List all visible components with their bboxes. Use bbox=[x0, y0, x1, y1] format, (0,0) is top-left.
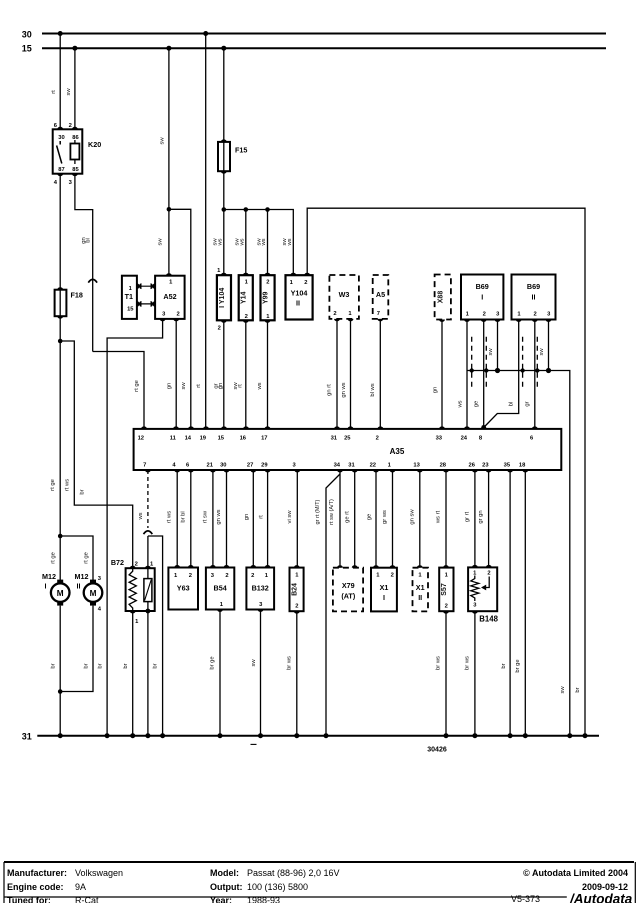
wire B132 pin 3 to ground (sw) bbox=[251, 610, 260, 736]
svg-text:gr: gr bbox=[525, 401, 531, 406]
svg-text:II: II bbox=[296, 299, 300, 308]
svg-text:gr ws: gr ws bbox=[382, 510, 388, 524]
svg-text:M12: M12 bbox=[42, 572, 56, 581]
connector link T1 to A52 (upper) bbox=[137, 283, 155, 289]
wire K20 pin 4 to fuse F18 (rt ge) bbox=[59, 174, 61, 290]
footer data table bbox=[4, 862, 635, 903]
svg-text:11: 11 bbox=[170, 436, 177, 442]
svg-text:16: 16 bbox=[240, 436, 247, 442]
svg-text:100 (136) 5800: 100 (136) 5800 bbox=[247, 882, 308, 892]
wire A35 pin 23 to B148 pin 2 (gr gn) bbox=[478, 470, 489, 568]
svg-text:23: 23 bbox=[482, 463, 489, 469]
junction rail / Y14 bbox=[244, 207, 249, 212]
wire junction to B72 pin 2 (rt ws) bbox=[60, 341, 133, 568]
power bus 30 (terminal 30) bbox=[22, 30, 606, 40]
svg-text:34: 34 bbox=[334, 463, 341, 469]
connector X88 bbox=[435, 275, 451, 323]
svg-text:X79: X79 bbox=[342, 581, 355, 590]
wire A35 pin 35 to ground (br) bbox=[501, 470, 510, 736]
svg-text:bl: bl bbox=[86, 238, 92, 243]
wire A35 pin 21 to B54 pin 3 (rt sw) bbox=[203, 470, 213, 568]
junction bus30 / K20 pin 6 wire bbox=[58, 31, 63, 36]
wire B69 II pin 1 to A35 pin 8 (bl) bbox=[484, 320, 519, 428]
svg-text:rt ge: rt ge bbox=[50, 479, 56, 491]
svg-text:2: 2 bbox=[295, 604, 298, 610]
junction M12 feed split bbox=[58, 534, 63, 539]
wire B72 internal node to ground bbox=[147, 611, 149, 736]
wire Y104 II pin 2 to ground bus (br) bbox=[307, 208, 585, 736]
wire M12 I to ground (br) bbox=[51, 606, 61, 736]
svg-text:ws: ws bbox=[138, 512, 144, 520]
svg-text:gr rt: gr rt bbox=[464, 511, 470, 522]
svg-text:30: 30 bbox=[22, 30, 32, 40]
wire A35 pin 4 to Y63 pin 1 (rt ws) bbox=[167, 470, 178, 568]
motor M12 II bbox=[75, 572, 103, 613]
wire branch to A35 pin 14 (sw) bbox=[169, 209, 191, 429]
svg-text:gn sw: gn sw bbox=[409, 509, 415, 525]
svg-text:1: 1 bbox=[174, 573, 178, 579]
svg-text:1: 1 bbox=[445, 573, 449, 579]
svg-text:26: 26 bbox=[468, 463, 475, 469]
svg-text:8: 8 bbox=[479, 436, 483, 442]
svg-text:© Autodata Limited 2004: © Autodata Limited 2004 bbox=[523, 868, 628, 878]
wire B72 pin 1 node to ground (br) bbox=[148, 536, 163, 736]
svg-text:F15: F15 bbox=[235, 146, 247, 155]
svg-text:gn rt: gn rt bbox=[327, 384, 333, 396]
svg-text:gn: gn bbox=[432, 387, 438, 393]
svg-text:Engine code:: Engine code: bbox=[7, 882, 64, 892]
svg-text:gn ws: gn ws bbox=[341, 382, 347, 397]
svg-text:bl ws: bl ws bbox=[370, 383, 376, 396]
wire bus15 to fuse F15 (sw) bbox=[223, 48, 225, 142]
svg-text:1: 1 bbox=[266, 314, 270, 320]
svg-text:B24: B24 bbox=[291, 583, 298, 596]
wire S57 pin 2 to ground (br ws) bbox=[436, 611, 446, 736]
wire A52 pin 3 to ground (br) bbox=[80, 319, 163, 736]
wire A35 pin 1 to X1 I pin 2 (gr ws) bbox=[382, 470, 393, 568]
svg-text:1: 1 bbox=[135, 619, 139, 625]
svg-text:Tuned for:: Tuned for: bbox=[7, 896, 51, 903]
svg-text:A35: A35 bbox=[390, 447, 405, 456]
svg-text:br ge: br ge bbox=[210, 656, 216, 669]
wire M12 II pin 4 to M12 I ground (br) bbox=[60, 606, 93, 692]
wire B24 pin 2 to ground (br ws) bbox=[286, 611, 296, 736]
svg-text:II: II bbox=[418, 593, 422, 602]
potentiometer B148 bbox=[468, 565, 499, 623]
junction at A35 pin 8 bbox=[481, 425, 486, 430]
svg-text:1: 1 bbox=[245, 280, 249, 286]
junction M12 ground bbox=[58, 689, 63, 694]
svg-text:B132: B132 bbox=[252, 584, 269, 593]
shield junction diamonds bbox=[469, 368, 540, 374]
wire W3 pin 2 to A35 pin 31 (gn rt) bbox=[327, 319, 337, 429]
svg-text:1: 1 bbox=[290, 280, 294, 286]
svg-text:3: 3 bbox=[473, 603, 477, 609]
sensor W3 bbox=[329, 275, 359, 321]
svg-text:Y63: Y63 bbox=[177, 584, 190, 593]
ground bus 31 bbox=[22, 732, 599, 742]
svg-text:gr gn: gr gn bbox=[478, 510, 484, 523]
footer manufacturer row bbox=[7, 868, 628, 878]
svg-text:br: br bbox=[153, 663, 159, 668]
wire A5 pin 7 to A35 pin 2 (bl ws) bbox=[370, 319, 380, 429]
svg-text:gn ws: gn ws bbox=[216, 509, 222, 524]
junction bus15 / A52 wire bbox=[166, 46, 171, 51]
wire A35 pin 30 to B54 pin 2 (gn ws) bbox=[216, 470, 226, 568]
svg-text:7: 7 bbox=[377, 311, 380, 317]
junction bus30 / A35 pin 19 wire bbox=[203, 31, 208, 36]
svg-text:rt ge: rt ge bbox=[50, 552, 56, 564]
svg-text:15: 15 bbox=[127, 307, 134, 313]
svg-text:rt ge: rt ge bbox=[134, 380, 140, 392]
wire bus15 to K20 pin 2 (sw) bbox=[66, 48, 75, 129]
svg-text:rt ws: rt ws bbox=[167, 511, 173, 523]
svg-text:br ws: br ws bbox=[464, 656, 470, 670]
svg-text:35: 35 bbox=[504, 463, 511, 469]
wire K20 pin 3 to A35 pin 12 (gn bl / rt ge) with tap arrow bbox=[75, 174, 144, 429]
svg-text:1: 1 bbox=[466, 311, 470, 317]
svg-text:br: br bbox=[501, 663, 507, 668]
svg-text:B72: B72 bbox=[111, 558, 124, 567]
svg-text:2: 2 bbox=[189, 573, 192, 579]
svg-text:ws: ws bbox=[457, 400, 463, 408]
wire junction to M12 I (rt ge) bbox=[50, 536, 60, 581]
wire Y104 I pin 2 to A35 pin 15 (gr gn) bbox=[213, 320, 224, 429]
svg-text:1: 1 bbox=[517, 311, 521, 317]
svg-text:2: 2 bbox=[533, 311, 536, 317]
fuse F15 bbox=[218, 139, 247, 173]
wire A35 pin 6 to Y63 pin 2 (br bl) bbox=[181, 470, 191, 568]
svg-text:3: 3 bbox=[162, 311, 166, 317]
svg-text:1: 1 bbox=[348, 311, 352, 317]
svg-text:gn: gn bbox=[167, 383, 173, 389]
junction B69 II pin 3 / shield bus bbox=[546, 368, 551, 373]
shield drain bus to ground (sw) bbox=[467, 371, 570, 736]
svg-text:2: 2 bbox=[304, 280, 307, 286]
connector X79 (AT) bbox=[333, 565, 363, 611]
wire A35 pin 28 to S57 pin 1 (ws rt) bbox=[436, 470, 447, 568]
wire B54 pin 1 to ground (br ge) bbox=[210, 610, 220, 736]
svg-text:Output:: Output: bbox=[210, 882, 242, 892]
svg-text:4: 4 bbox=[172, 463, 176, 469]
svg-text:ws: ws bbox=[287, 238, 293, 246]
sensor B132 bbox=[246, 565, 274, 612]
svg-text:1: 1 bbox=[217, 268, 221, 274]
junction ground bus / B132 bbox=[258, 733, 263, 738]
svg-text:2: 2 bbox=[225, 573, 228, 579]
svg-text:6: 6 bbox=[186, 463, 190, 469]
wire A35 pin 18 to ground (br ge) bbox=[515, 470, 525, 736]
svg-text:2009-09-12: 2009-09-12 bbox=[582, 882, 628, 892]
svg-text:B69: B69 bbox=[476, 282, 489, 291]
svg-text:2: 2 bbox=[135, 562, 138, 568]
svg-text:ws: ws bbox=[257, 382, 263, 390]
svg-text:2: 2 bbox=[251, 573, 254, 579]
svg-text:Model:: Model: bbox=[210, 868, 239, 878]
svg-text:2: 2 bbox=[487, 571, 490, 577]
sensor B54 bbox=[206, 565, 234, 612]
svg-text:14: 14 bbox=[185, 436, 192, 442]
wire B72 pin 1 (bottom) to ground (br) bbox=[123, 611, 133, 736]
svg-text:22: 22 bbox=[370, 463, 376, 469]
svg-text:85: 85 bbox=[72, 167, 79, 173]
svg-text:rt: rt bbox=[258, 515, 264, 519]
wire A35 pin 29 to B132 pin 1 (rt) bbox=[258, 470, 267, 568]
svg-text:1: 1 bbox=[376, 573, 380, 579]
svg-text:/Autodata: /Autodata bbox=[569, 892, 633, 903]
svg-text:sw: sw bbox=[560, 686, 566, 694]
junction ground bus / shield drain bbox=[567, 733, 572, 738]
wire A35 pin 13 to X1 II pin 1 (gn sw) bbox=[409, 470, 420, 568]
connector arrow at B72 pin 1 bbox=[144, 531, 153, 534]
switch S57 bbox=[439, 565, 453, 614]
wire bus15 to A52 pin 1 (sw) bbox=[158, 48, 169, 276]
svg-text:3: 3 bbox=[292, 463, 296, 469]
svg-text:3: 3 bbox=[69, 180, 73, 186]
junction ground bus / A35 pin35 bbox=[508, 733, 513, 738]
wire A35 pin 3 to B24 pin 1 (vi sw) bbox=[287, 470, 298, 568]
valve Y99 bbox=[261, 273, 275, 323]
svg-text:W3: W3 bbox=[339, 290, 350, 299]
footer tuned row (cut off) bbox=[7, 894, 540, 903]
valve Y104 II bbox=[286, 273, 313, 320]
svg-text:ge rt: ge rt bbox=[344, 511, 350, 523]
wire F15 output rail bbox=[224, 171, 293, 275]
svg-text:1: 1 bbox=[169, 280, 173, 286]
svg-text:27: 27 bbox=[247, 463, 253, 469]
svg-text:br: br bbox=[97, 663, 103, 668]
wire B69 I pin 2 to A35 pin 8 (ge) bbox=[474, 320, 484, 429]
wire B69 I pin 1 to A35 pin 24 (ws) bbox=[457, 320, 467, 429]
svg-text:ws: ws bbox=[217, 238, 223, 246]
sensor B69 I bbox=[461, 275, 503, 323]
wire A35 pin 7 to B72 pin 1 (ws, dashed) with arrow bbox=[138, 470, 148, 568]
svg-text:rt ws: rt ws bbox=[64, 479, 70, 491]
wire X88 to A35 pin 33 (gn) bbox=[432, 320, 442, 429]
junction ground bus / S57 bbox=[444, 733, 449, 738]
svg-text:rt sw: rt sw bbox=[203, 510, 209, 523]
svg-text:19: 19 bbox=[200, 436, 207, 442]
svg-text:15: 15 bbox=[22, 44, 32, 54]
ground node 30426 bbox=[251, 744, 447, 753]
svg-text:6: 6 bbox=[530, 436, 534, 442]
svg-text:Manufacturer:: Manufacturer: bbox=[7, 868, 67, 878]
svg-text:gr rt (M/T): gr rt (M/T) bbox=[315, 499, 321, 524]
wire Y99 pin 1 to A35 pin 17 (ws) bbox=[257, 320, 267, 429]
svg-text:R-Cat: R-Cat bbox=[75, 896, 99, 903]
module A5 bbox=[373, 275, 389, 321]
wire B69 II pin 3 to shield bus (sw) bbox=[539, 320, 549, 371]
svg-text:15: 15 bbox=[218, 436, 225, 442]
svg-text:X1: X1 bbox=[380, 583, 389, 592]
sensor B24 bbox=[290, 565, 304, 614]
svg-text:T1: T1 bbox=[125, 292, 133, 301]
svg-text:87: 87 bbox=[58, 167, 64, 173]
svg-text:6: 6 bbox=[54, 123, 58, 129]
svg-text:2: 2 bbox=[483, 311, 486, 317]
wire rail to Y104 I pin 1 (sw ws) bbox=[213, 210, 224, 276]
junction ground bus / M12 bbox=[58, 733, 63, 738]
svg-text:rt sw (A/T): rt sw (A/T) bbox=[329, 499, 335, 525]
Autodata logo bbox=[569, 892, 633, 903]
svg-text:Y14: Y14 bbox=[241, 291, 248, 304]
svg-text:1988-93: 1988-93 bbox=[247, 896, 280, 903]
wire B148 pin 3 to ground (br ws) bbox=[464, 611, 475, 736]
svg-text:ge: ge bbox=[367, 514, 373, 520]
wire F18 to junction (rt ge) bbox=[50, 316, 60, 536]
fuse F18 bbox=[55, 287, 83, 319]
svg-text:rt: rt bbox=[196, 384, 202, 388]
svg-text:sw: sw bbox=[159, 137, 165, 145]
svg-text:ge: ge bbox=[474, 401, 480, 407]
wire A35 pin 27 to B132 pin 2 (gn) bbox=[244, 470, 253, 568]
svg-text:gn: gn bbox=[244, 514, 250, 520]
svg-text:33: 33 bbox=[436, 436, 443, 442]
screen (shield) dashed lines B69 I bbox=[472, 337, 487, 389]
ignition coil T1 bbox=[122, 276, 137, 319]
svg-text:br ws: br ws bbox=[436, 656, 442, 670]
svg-text:II: II bbox=[532, 293, 536, 302]
svg-text:3: 3 bbox=[98, 576, 102, 582]
wire A35 pin 34 to ground (gr rt (M/T)) bbox=[315, 474, 340, 736]
svg-text:S57: S57 bbox=[441, 583, 448, 596]
svg-text:13: 13 bbox=[413, 463, 420, 469]
wire rail to Y14 pin 1 (sw ws) bbox=[235, 210, 246, 276]
svg-text:br: br bbox=[51, 663, 57, 668]
svg-text:B54: B54 bbox=[214, 584, 227, 593]
wire junction to M12 II pin 3 (rt ge) bbox=[60, 536, 93, 581]
junction ground bus / B54 bbox=[218, 733, 223, 738]
svg-text:II: II bbox=[77, 582, 81, 591]
svg-text:A52: A52 bbox=[163, 292, 176, 301]
svg-text:2: 2 bbox=[445, 604, 448, 610]
wire rail to Y99 pin 2 (sw ws) bbox=[256, 210, 267, 276]
svg-text:br: br bbox=[123, 663, 129, 668]
svg-text:1: 1 bbox=[265, 573, 269, 579]
svg-text:B148: B148 bbox=[479, 614, 498, 623]
svg-text:30426: 30426 bbox=[427, 747, 447, 754]
svg-text:2: 2 bbox=[391, 573, 394, 579]
valve Y14 bbox=[239, 273, 253, 323]
connector arrow on gn bl wire bbox=[88, 279, 97, 282]
svg-text:I: I bbox=[45, 582, 47, 591]
svg-text:2: 2 bbox=[266, 280, 269, 286]
svg-text:86: 86 bbox=[72, 135, 79, 141]
junction A52 feed / A35 pin 14 branch bbox=[167, 207, 172, 212]
svg-text:rt ge: rt ge bbox=[83, 552, 89, 564]
svg-text:1: 1 bbox=[150, 562, 154, 568]
wire bus30 to K20 pin 6 (rt) bbox=[51, 34, 60, 130]
svg-text:M12: M12 bbox=[75, 572, 89, 581]
svg-text:br ge: br ge bbox=[515, 659, 521, 672]
svg-text:30: 30 bbox=[220, 463, 226, 469]
svg-text:1: 1 bbox=[418, 573, 422, 579]
svg-text:bl: bl bbox=[509, 402, 515, 407]
motor M12 I bbox=[42, 572, 69, 606]
junction rail / Y99 bbox=[265, 207, 270, 212]
svg-text:br: br bbox=[80, 489, 86, 494]
valve Y63 bbox=[168, 565, 198, 610]
junction ground bus / A52 ground bbox=[105, 733, 110, 738]
junction B69 I pin 3 / shield bus bbox=[495, 368, 500, 373]
svg-text:X1: X1 bbox=[416, 583, 425, 592]
svg-text:(AT): (AT) bbox=[341, 592, 355, 601]
wire bus30 to A35 pin 19 (rt) bbox=[196, 34, 206, 429]
svg-text:rt: rt bbox=[51, 90, 57, 94]
wire B69 II pin 2 to A35 pin 6 (gr) bbox=[525, 320, 535, 429]
svg-text:V5-373: V5-373 bbox=[511, 894, 540, 903]
junction ground bus / B24 bbox=[294, 733, 299, 738]
svg-text:1: 1 bbox=[220, 602, 224, 608]
relay K20 bbox=[53, 123, 101, 186]
svg-text:28: 28 bbox=[440, 463, 447, 469]
svg-text:9A: 9A bbox=[75, 882, 86, 892]
svg-text:17: 17 bbox=[261, 436, 267, 442]
svg-text:18: 18 bbox=[519, 463, 526, 469]
svg-text:21: 21 bbox=[206, 463, 213, 469]
valve Y104 I bbox=[217, 268, 231, 332]
svg-text:br ws: br ws bbox=[286, 656, 292, 670]
svg-text:A5: A5 bbox=[376, 290, 385, 299]
wire A35 pin 22 to X1 I pin 1 (ge) bbox=[367, 470, 376, 568]
svg-text:Y99: Y99 bbox=[262, 291, 269, 304]
svg-text:br bl: br bl bbox=[181, 511, 187, 522]
svg-text:K20: K20 bbox=[88, 140, 101, 149]
resistor unit B72 bbox=[111, 558, 155, 625]
svg-text:vi sw: vi sw bbox=[287, 510, 293, 524]
svg-text:gn: gn bbox=[218, 383, 224, 389]
svg-text:sw: sw bbox=[488, 348, 494, 356]
wire A52 pin 2 to A35 pin 11 (gn) bbox=[167, 319, 177, 429]
svg-text:ws: ws bbox=[239, 238, 245, 246]
svg-text:sw: sw bbox=[539, 348, 545, 356]
svg-text:7: 7 bbox=[143, 463, 146, 469]
svg-text:2: 2 bbox=[376, 436, 379, 442]
svg-text:2: 2 bbox=[245, 314, 248, 320]
svg-text:Volkswagen: Volkswagen bbox=[75, 868, 123, 878]
svg-text:I Y104: I Y104 bbox=[219, 288, 226, 308]
svg-text:31: 31 bbox=[348, 463, 355, 469]
svg-text:31: 31 bbox=[331, 436, 338, 442]
svg-text:1: 1 bbox=[129, 286, 133, 292]
svg-text:X88: X88 bbox=[437, 291, 444, 304]
wire W3 pin 1 to A35 pin 25 (gn ws) bbox=[341, 319, 351, 429]
svg-text:br: br bbox=[575, 687, 581, 692]
junction bus15 / K20 pin 2 wire bbox=[72, 46, 77, 51]
junction ground bus / B72 node bbox=[145, 733, 150, 738]
svg-text:sw: sw bbox=[158, 238, 164, 246]
svg-text:24: 24 bbox=[461, 436, 468, 442]
wire A35 pin 26 to B148 pin 1 (gr rt) bbox=[464, 470, 475, 568]
svg-text:25: 25 bbox=[344, 436, 351, 442]
svg-text:31: 31 bbox=[22, 732, 32, 742]
junction ground bus / B72 pin1 bbox=[130, 733, 135, 738]
svg-text:3: 3 bbox=[259, 602, 263, 608]
connector link T1 to A52 (lower) bbox=[137, 301, 155, 307]
svg-text:sw: sw bbox=[251, 659, 257, 667]
footer engine row bbox=[7, 882, 628, 892]
sensor B69 II bbox=[512, 275, 556, 323]
wire B69 I pin 3 to shield bus (sw) bbox=[488, 320, 498, 371]
svg-text:29: 29 bbox=[261, 463, 268, 469]
svg-text:ws: ws bbox=[261, 238, 267, 246]
svg-text:M: M bbox=[90, 589, 97, 598]
power bus 15 (terminal 15) bbox=[22, 44, 606, 54]
svg-text:12: 12 bbox=[138, 436, 144, 442]
svg-text:ws rt: ws rt bbox=[436, 510, 442, 524]
wire Y14 pin 2 to A35 pin 16 (sw rt) bbox=[233, 320, 246, 429]
junction rail / Y104 I bbox=[222, 207, 227, 212]
